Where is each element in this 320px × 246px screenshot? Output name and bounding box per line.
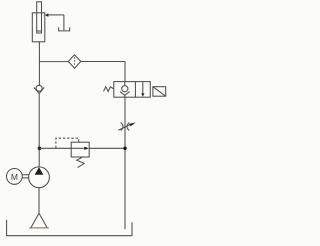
- filter F (diamond): [68, 55, 81, 68]
- junction node riser-relief: [38, 147, 42, 151]
- coupling motor-pump: [22, 174, 28, 176]
- pump outlet triangle: [35, 167, 44, 174]
- valve return spring: [104, 87, 114, 92]
- wire rod-side drain vertical: [63, 15, 65, 30]
- relief valve spring: [77, 157, 84, 167]
- valve left position port stub: [124, 82, 126, 86]
- reservoir tank: [7, 220, 132, 236]
- cylinder piston rod: [37, 2, 42, 33]
- solenoid actuator: [153, 87, 166, 97]
- wire valve bottom port down to tank: [124, 97, 126, 229]
- check valve seat: [34, 87, 44, 93]
- relief valve pilot line dashed: [56, 138, 79, 148]
- valve left position check ball: [122, 86, 128, 92]
- junction node drain-relief: [123, 147, 127, 151]
- rod-side drain arrowhead: [45, 13, 49, 17]
- piston plate: [37, 30, 42, 32]
- wire relief inlet: [40, 147, 72, 149]
- filter element dashed: [74, 57, 76, 66]
- electric motor M circle: [6, 169, 22, 185]
- throttle adjustment arrow: [118, 125, 130, 131]
- valve right position flow arrow: [142, 82, 144, 94]
- cylinder body (single-acting cylinder): [32, 13, 45, 42]
- wire rod-side drain horizontal: [48, 14, 64, 16]
- svg-text:M: M: [11, 172, 18, 182]
- pressure relief valve body: [71, 142, 89, 157]
- check valve (on pump riser) circle: [36, 85, 42, 91]
- wire pump suction: [38, 188, 40, 214]
- wire cylinder bottom port down: [38, 42, 40, 86]
- directional valve 2/2 body: [114, 82, 151, 98]
- directional valve divider: [134, 82, 136, 98]
- wire filter to valve corner: [81, 61, 125, 63]
- suction strainer base: [29, 227, 49, 229]
- pump circle: [29, 167, 50, 188]
- valve left position check seat: [120, 92, 130, 96]
- throttle valve arcs (adjustable restrictor): [121, 123, 123, 131]
- wire down to valve top port: [124, 62, 126, 82]
- drain tank symbol: [59, 27, 70, 31]
- valve left position seat stub: [124, 95, 126, 97]
- wire riser check valve to relief junction and pump: [38, 94, 40, 167]
- suction strainer sides: [31, 213, 47, 228]
- wire relief outlet: [89, 147, 123, 149]
- wire branch to filter line: [39, 61, 68, 63]
- relief valve flow arrow: [71, 147, 85, 149]
- solenoid diagonal: [153, 87, 166, 97]
